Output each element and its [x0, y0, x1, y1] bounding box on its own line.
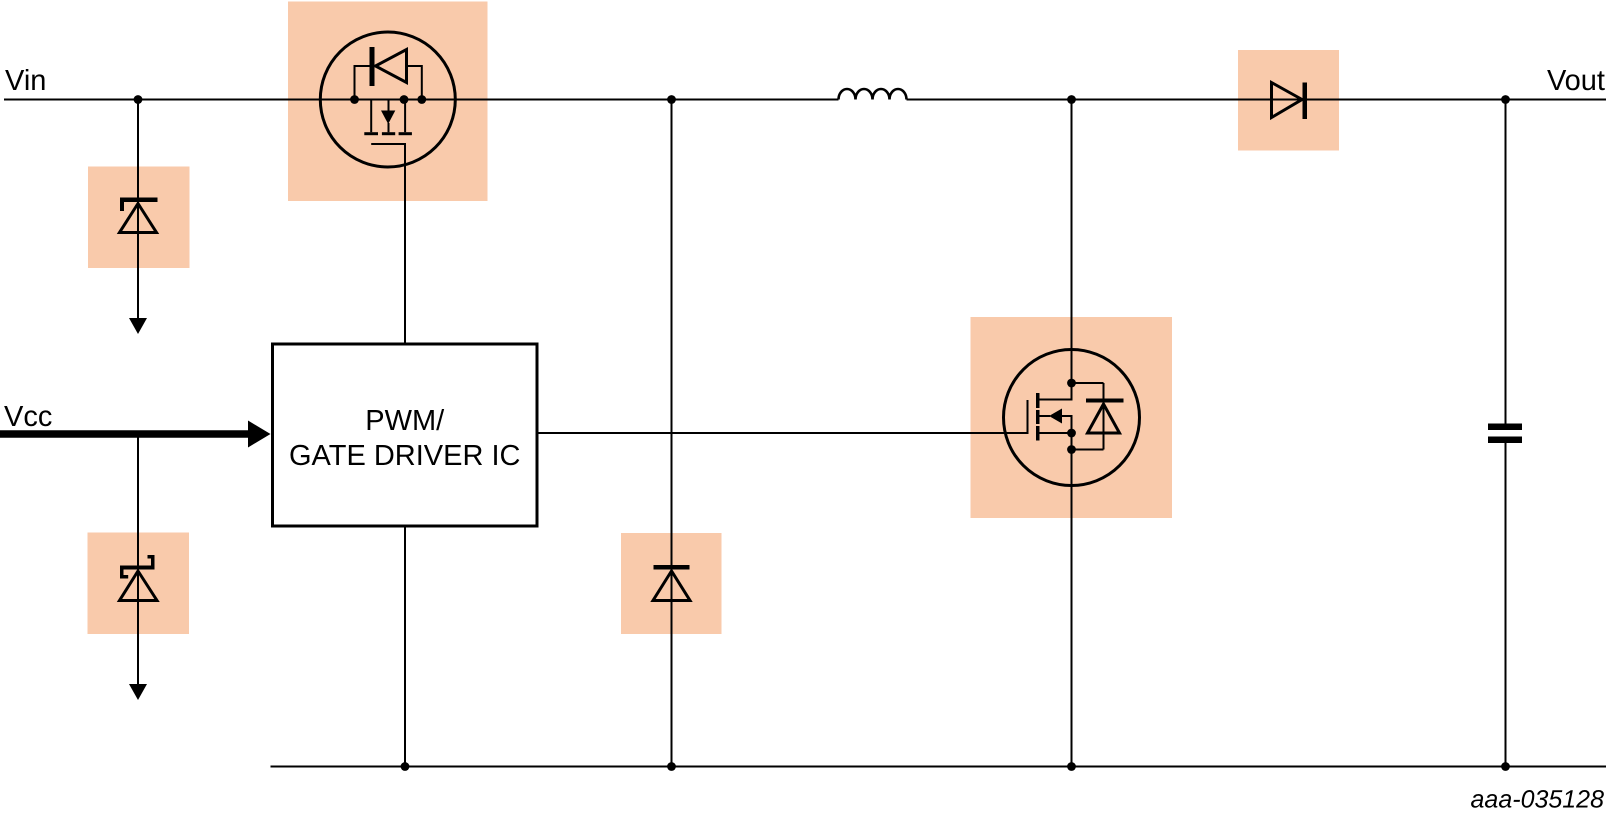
node ground rail dot at D2	[667, 762, 676, 771]
wire Q2 body diode connectors	[1072, 383, 1104, 450]
inductor L1	[839, 89, 907, 100]
svg-text:Vout: Vout	[1547, 65, 1605, 97]
diode Q1 body cathode bar	[370, 47, 375, 86]
svg-text:Vcc: Vcc	[4, 401, 52, 433]
transistor Q1 circle	[320, 32, 455, 167]
highlight box D3	[1238, 50, 1339, 151]
node Q2 anode dot	[1067, 445, 1076, 454]
wire Q1 body arrow stem	[388, 100, 390, 133]
wire Vin top rail left segment	[4, 99, 839, 101]
zener Z2 cathode bar	[120, 566, 155, 570]
IC U1 PWM/GATE DRIVER box	[273, 344, 538, 526]
node Q1 drain dot	[417, 95, 426, 104]
wire Q1 gate	[371, 144, 405, 343]
transistor Q2 circle	[1004, 350, 1140, 486]
zener Z2 left hook	[120, 570, 128, 579]
node ground rail dot at C1	[1501, 762, 1510, 771]
wire Q2 drain vertical	[1071, 100, 1073, 384]
svg-text:Vin: Vin	[5, 65, 46, 97]
node Q2 drain dot	[1067, 379, 1076, 388]
capacitor C1 top plate	[1488, 424, 1522, 431]
diode Q1 body triangle	[376, 50, 407, 83]
svg-text:aaa-035128: aaa-035128	[1471, 786, 1605, 814]
wire Q2 body line	[1040, 416, 1072, 433]
arrow Z2 down arrowhead	[129, 684, 147, 700]
wire Q2 source contact	[1040, 432, 1072, 434]
wire U1 bottom to ground rail	[404, 528, 406, 767]
diode Q2 body triangle	[1088, 404, 1120, 433]
channel bars Q1	[364, 132, 412, 135]
node ground rail dot at Q2	[1067, 762, 1076, 771]
wire Q1 left contact	[370, 100, 372, 133]
wire Z2 string vertical	[137, 438, 139, 686]
arrow Q1 body arrow	[381, 111, 395, 125]
node Q1 middle dot	[400, 95, 409, 104]
wire bottom ground rail	[271, 766, 1606, 768]
diode D2 triangle	[653, 571, 690, 601]
channel bars Q2	[1036, 393, 1040, 441]
zener Z1 triangle	[120, 204, 157, 233]
diode Q2 body cathode bar	[1086, 399, 1124, 403]
node Q1 source dot	[350, 95, 359, 104]
highlight box Z2	[88, 533, 190, 635]
wire capacitor top	[1505, 100, 1507, 424]
highlight box D2	[621, 533, 722, 634]
wire Q1 right contact	[404, 100, 406, 133]
diode D2 cathode bar	[654, 565, 690, 570]
wire capacitor bottom	[1505, 443, 1507, 767]
arrow Q2 body arrow	[1049, 409, 1062, 424]
arrow Vcc arrowhead	[248, 421, 271, 448]
wire Z1 string vertical	[137, 100, 139, 320]
wire U1 output to Q2 gate	[539, 400, 1028, 433]
wire Q1 body-diode right connector	[407, 66, 422, 100]
node ground rail dot at U1	[401, 762, 410, 771]
highlight box Z1	[88, 167, 190, 269]
svg-text:GATE DRIVER IC: GATE DRIVER IC	[289, 440, 521, 472]
wire top rail right segment	[907, 99, 1606, 101]
node Q2 top junction	[1067, 95, 1076, 104]
svg-text:PWM/: PWM/	[365, 405, 445, 437]
capacitor C1 bottom plate	[1488, 437, 1522, 444]
diode D3 cathode bar	[1303, 83, 1308, 120]
node Q2 source dot	[1067, 429, 1076, 438]
wire Q2 drain contact	[1040, 383, 1072, 400]
zener Z2 right hook	[148, 555, 155, 566]
highlight box Q2	[971, 317, 1173, 518]
node Vout junction	[1501, 95, 1510, 104]
wire Vcc input arrow shaft	[0, 430, 250, 438]
wire Q2 source to anode junction	[1071, 433, 1073, 450]
diode D3 triangle	[1272, 83, 1303, 118]
node D2 top junction	[667, 95, 676, 104]
highlight box Q1	[288, 2, 488, 202]
wire Q2 source vertical to ground rail	[1071, 450, 1073, 767]
zener Z1 cathode hook	[120, 202, 124, 211]
zener Z1 cathode bar	[120, 198, 158, 203]
wire Q1 body-diode left connector	[355, 66, 370, 100]
zener Z2 triangle	[120, 571, 158, 601]
wire D2 string vertical	[671, 100, 673, 767]
arrow Z1 down arrowhead	[129, 318, 147, 334]
node Vin junction	[134, 95, 143, 104]
